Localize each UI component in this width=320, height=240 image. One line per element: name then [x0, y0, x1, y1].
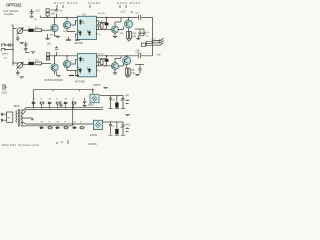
wire TR1 emitter down to ground: [54, 32, 56, 36]
svg-text:DC9V DC9V: DC9V DC9V: [54, 1, 78, 5]
capacitor C1a (mid, between channels): [24, 42, 27, 47]
wire BR2 out: [103, 121, 124, 123]
LED D4 inside IC2: [79, 57, 84, 63]
wire right bus: [152, 18, 154, 56]
transformer T1 secondary winding: [21, 110, 22, 126]
node psu link 2: [72, 123, 74, 125]
wire IC1 pins to grounds: [69, 37, 78, 41]
potentiometer VR1: [17, 28, 23, 34]
svg-text:(F): (F): [130, 11, 133, 14]
svg-text:uC2: uC2: [121, 11, 126, 14]
svg-text:OPTO22: OPTO22: [6, 3, 22, 8]
transistor TR1: [51, 24, 58, 31]
svg-text:1m: 1m: [120, 127, 123, 129]
capacitor C26 (psu small): [59, 101, 62, 108]
node bus1 x41.5: [41, 107, 42, 108]
input jack L: [2, 44, 14, 47]
ground under TR1: [55, 36, 61, 38]
jack tip L: [4, 44, 6, 46]
wire TR8 collector to rail: [126, 56, 128, 57]
capacitor C9 (output top): [142, 29, 145, 36]
node IC2 out b: [104, 65, 106, 67]
resistor R16 (under TR8): [128, 68, 130, 75]
resistor R15 (under TR8): [125, 68, 127, 75]
ground under TR7: [113, 73, 117, 74]
svg-text:10u 63v: 10u 63v: [98, 13, 107, 15]
capacitor C17 (output bottom): [138, 65, 141, 74]
photodiode D2 inside IC1: [78, 30, 82, 36]
wire TR2 to opto input: [67, 21, 78, 32]
ground under C4: [20, 42, 25, 43]
wire ac bus pair 2: [27, 124, 93, 126]
ground under C14: [20, 77, 25, 78]
transistor TR6: [63, 60, 70, 67]
ground under TR5: [56, 72, 61, 77]
wire output node: [135, 28, 144, 30]
transistor TR7: [112, 63, 119, 70]
capacitor C20: [109, 96, 112, 109]
node brail TR8: [126, 55, 128, 57]
photodiode D3 inside IC1: [87, 30, 91, 36]
stray marks bottom: [56, 140, 68, 144]
ground row psu 2: [108, 134, 125, 136]
transformer T1 leads: [1, 113, 6, 121]
resistor R3 (top chain): [35, 29, 41, 32]
wire TR4 emitter to resistors: [128, 28, 130, 32]
svg-text:47u: 47u: [112, 100, 115, 102]
node IC1 out b: [104, 29, 106, 31]
photodiode D5 inside IC2: [78, 67, 82, 73]
node rail TR1: [54, 17, 56, 19]
svg-text:1,5k 47u: 1,5k 47u: [96, 21, 105, 23]
LED D1 inside IC1: [79, 19, 84, 25]
capacitor C1b (mid): [24, 47, 27, 52]
svg-text:47k: 47k: [51, 8, 56, 12]
node rail C3: [56, 17, 58, 19]
ground dash mid2: [25, 52, 29, 54]
wire output node bottom: [135, 64, 144, 66]
resistor R5 (under TR4): [127, 32, 129, 39]
wire TR6 collector to rail: [66, 56, 68, 61]
svg-text:(M): (M): [47, 42, 51, 45]
resistor R13 (bottom chain): [35, 62, 42, 65]
capacitor C7 (series on rail): [138, 15, 140, 20]
ground under C8 C9: [136, 36, 144, 40]
wire input vertical bus: [12, 25, 17, 66]
svg-text:m: m: [99, 71, 101, 73]
capacitor C19 (psu left): [83, 98, 86, 105]
capacitor C15 (black electrolytic, bottom chain): [23, 64, 29, 66]
wire TR5 emitter ground: [54, 71, 56, 74]
node IC1 out a: [96, 29, 98, 31]
node bus1 x57.5: [57, 107, 58, 108]
arrow marks +9V: [126, 100, 129, 104]
svg-text:+9V: +9V: [125, 95, 130, 98]
wire psu vertical link: [72, 101, 74, 126]
wire ac bus pair 1: [27, 108, 103, 110]
input jack R: [2, 49, 14, 52]
svg-text:RM: RM: [132, 36, 136, 39]
resistor R6 (under TR4): [129, 32, 131, 39]
svg-text:BC546C BC546C: BC546C BC546C: [45, 79, 64, 82]
capacitor C16b (black, after IC2): [105, 59, 109, 62]
wire IC2 output: [97, 56, 112, 66]
mains plug symbol: [2, 85, 6, 89]
resistor R12: [46, 57, 49, 60]
ground C19: [82, 106, 86, 107]
opto-coupler IC1 (top): [77, 16, 96, 39]
capacitor C25: [121, 122, 124, 135]
svg-text:+VC2: +VC2: [125, 124, 132, 127]
capacitor C21 (electrolytic): [116, 96, 118, 103]
ground left of TR1: [45, 34, 49, 40]
ground under IC1 pin 2: [66, 39, 80, 41]
node bus pot2: [12, 62, 14, 64]
node rail TR4: [128, 17, 130, 19]
connector K1: [142, 43, 146, 46]
transformer T1 primary box: [7, 112, 13, 122]
svg-text:1,5k 47u: 1,5k 47u: [96, 54, 105, 56]
wire TR2 collector to rail: [66, 18, 68, 22]
bridge rectifier BR2: [94, 120, 103, 129]
node psu feed: [92, 89, 94, 91]
capacitor C0 (series input line): [9, 43, 11, 46]
capacitor C13 (on rail bottom-left): [55, 46, 58, 56]
svg-text:EHow 2013 - My Power circuit: EHow 2013 - My Power circuit: [2, 144, 39, 147]
headphone jack contacts: [153, 38, 164, 45]
wire psu feed line: [33, 90, 93, 108]
wire rail bottom channel: [48, 56, 153, 60]
wire TR7 emitter TR8 base: [115, 63, 123, 72]
node IC2 out a: [96, 65, 98, 67]
wire TR8 emitter to resistors: [126, 65, 128, 69]
svg-text:IC1: IC1: [82, 13, 87, 17]
capacitor C6 (after IC1): [97, 25, 100, 26]
node input R: [12, 49, 14, 51]
capacitor C24 (electrolytic): [116, 122, 118, 129]
svg-text:(BR1): (BR1): [88, 104, 94, 107]
capacitor C22: [121, 96, 124, 109]
svg-text:m: m: [99, 34, 101, 36]
wire TR6 to opto input: [67, 60, 78, 71]
svg-text:CM: CM: [131, 72, 135, 75]
svg-text:LM7915: LM7915: [88, 143, 97, 146]
arrow marks +VC2: [126, 128, 129, 132]
capacitor C18 (series on bottom rail): [138, 53, 140, 58]
wire R3 to TR1: [41, 29, 51, 31]
capacitor C8 (output top): [138, 29, 141, 36]
svg-text:LM791: LM791: [90, 134, 98, 137]
jack tip R: [4, 49, 6, 51]
ground stub near bridge 1: [104, 88, 108, 89]
wire into bridge 1: [92, 90, 94, 94]
wire under R5 R6: [128, 39, 131, 42]
wire IC1 output: [97, 18, 112, 30]
transformer secondary taps: [21, 108, 32, 126]
transistor TR4: [125, 20, 133, 28]
capacitor C23: [109, 122, 112, 134]
bridge rectifier BR1: [90, 94, 99, 102]
transformer T1 core: [18, 109, 20, 127]
node bus1 x33.5: [33, 107, 34, 108]
wire TR3 emitter TR4 base: [115, 27, 123, 36]
node psu link 1: [72, 107, 74, 109]
svg-text:L+R: L+R: [3, 57, 7, 59]
svg-text:48VA: 48VA: [14, 105, 20, 108]
IC2 pin stubs: [75, 57, 98, 74]
node jack: [152, 40, 154, 42]
IC1 pin stubs left: [75, 34, 77, 38]
svg-text:100: 100: [51, 12, 56, 16]
transistor TR5: [51, 64, 58, 71]
resistor R14 (after IC2): [101, 60, 103, 65]
grounds under IC2: [69, 75, 79, 77]
ground mid: [31, 52, 35, 53]
capacitor C4 (under VR1): [16, 36, 19, 42]
ground under TR3: [113, 36, 117, 37]
ground under C2: [30, 16, 34, 17]
capacitor C16 (after IC2): [97, 61, 100, 62]
node rail junction: [106, 17, 108, 19]
svg-text:ACADJ: ACADJ: [88, 1, 101, 5]
capacitor C14 (under VR2): [16, 70, 19, 76]
transformer T1 primary winding: [15, 111, 18, 123]
svg-text:+C2: +C2: [35, 9, 40, 13]
node rail TR2: [66, 17, 68, 19]
wire TR4 collector to rail: [128, 18, 130, 21]
capacitor C3 (top-left on rail): [55, 8, 58, 18]
svg-text:LM975: LM975: [93, 84, 101, 87]
resistor R4 (after IC1): [101, 23, 103, 28]
tick marks under labels: [57, 5, 126, 8]
wire under R15 R16: [126, 75, 129, 78]
wire TR7 collector to rail: [115, 56, 121, 63]
ground stub tap3: [31, 118, 35, 120]
transistor TR8: [123, 57, 131, 65]
opto-coupler IC2 (bottom): [77, 54, 96, 77]
wires to headphone socket: [146, 41, 153, 45]
transistor TR3: [112, 26, 119, 33]
svg-text:MCT62E: MCT62E: [75, 81, 85, 84]
capacitor C6b (black, after IC1): [105, 23, 109, 26]
svg-text:47u: 47u: [112, 126, 115, 128]
capacitor C2 (top-left electrolytic): [30, 9, 34, 16]
wire TR1 collector up: [54, 18, 56, 25]
resistor R2 (vertical chain lower): [46, 13, 49, 16]
svg-text:MCT62: MCT62: [75, 41, 84, 45]
svg-text:(F): (F): [34, 19, 37, 21]
svg-text:230V: 230V: [2, 92, 8, 95]
capacitor C5 (black electrolytic, top chain): [23, 29, 29, 31]
wire bus to VR2: [13, 62, 18, 64]
svg-text:INPUT: INPUT: [2, 54, 9, 56]
photodiode D6 inside IC2: [87, 67, 91, 73]
resistor R11 (vertical chain bottom left): [46, 53, 49, 56]
node brail TR5: [54, 55, 56, 57]
svg-text:1m: 1m: [120, 100, 123, 102]
ground row psu 1: [108, 108, 125, 110]
node bus1 x49.5: [49, 107, 50, 108]
wire BR1 out: [100, 95, 123, 97]
IC1 pin stubs right: [97, 21, 99, 34]
node rail junction bottom: [106, 55, 108, 57]
node bus1 x65.5: [65, 107, 66, 108]
transistor TR2: [63, 21, 70, 28]
wire rail top channel: [41, 16, 153, 18]
wire R13 to TR5: [42, 62, 51, 64]
resistor R1 (vertical chain upper): [46, 9, 49, 12]
ground under C17: [135, 74, 139, 75]
svg-text:+VC2: +VC2: [150, 38, 156, 40]
wire TR5 collector up: [54, 56, 56, 64]
ground right psu: [125, 114, 130, 115]
svg-text:K+g Ber: K+g Ber: [4, 12, 14, 16]
wire TR3 collector to rail: [115, 18, 121, 27]
node input L: [12, 44, 14, 46]
svg-text:32R: 32R: [157, 54, 161, 56]
potentiometer VR2: [17, 63, 23, 69]
svg-text:DC9V DC9V: DC9V DC9V: [117, 1, 140, 5]
node brail TR6: [66, 55, 68, 57]
